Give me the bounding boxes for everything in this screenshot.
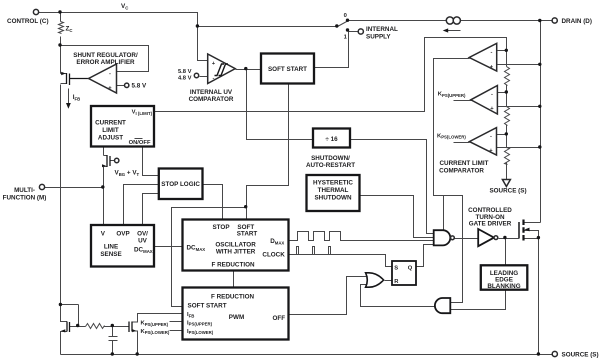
svg-text:OVP: OVP (116, 231, 129, 238)
svg-text:SOFT START: SOFT START (268, 66, 307, 73)
svg-text:CLOCK: CLOCK (262, 251, 285, 258)
svg-text:MULTI-: MULTI- (14, 187, 35, 194)
svg-text:STOP LOGIC: STOP LOGIC (161, 181, 200, 188)
svg-text:COMPARATOR: COMPARATOR (439, 167, 484, 174)
svg-text:ON/OFF: ON/OFF (129, 140, 151, 146)
svg-text:IPS(UPPER): IPS(UPPER) (187, 320, 213, 326)
svg-text:BLANKING: BLANKING (487, 283, 520, 290)
svg-text:S: S (394, 265, 398, 271)
svg-text:÷ 16: ÷ 16 (325, 136, 338, 143)
svg-text:WITH JITTER: WITH JITTER (216, 248, 256, 255)
svg-text:SENSE: SENSE (100, 251, 121, 258)
svg-text:4.8 V: 4.8 V (178, 75, 192, 81)
svg-text:ADJUST: ADJUST (98, 135, 123, 142)
svg-text:SOURCE (S): SOURCE (S) (489, 188, 526, 195)
svg-text:-: - (490, 133, 492, 139)
svg-text:-: - (109, 71, 111, 77)
svg-text:SOFT START: SOFT START (188, 303, 227, 310)
svg-text:STOP: STOP (212, 224, 229, 231)
svg-text:LINE: LINE (104, 244, 118, 251)
svg-text:F REDUCTION: F REDUCTION (211, 293, 254, 300)
svg-text:INTERNAL UV: INTERNAL UV (190, 89, 233, 96)
svg-text:VBG + VT: VBG + VT (115, 170, 140, 178)
svg-text:SUPPLY: SUPPLY (366, 33, 391, 40)
svg-text:FUNCTION (M): FUNCTION (M) (3, 194, 47, 201)
svg-text:KPS(UPPER): KPS(UPPER) (141, 321, 169, 327)
svg-text:F REDUCTION: F REDUCTION (211, 262, 254, 269)
svg-text:THERMAL: THERMAL (318, 187, 349, 194)
svg-text:KPS(UPPER): KPS(UPPER) (438, 92, 466, 98)
svg-text:-: - (213, 76, 215, 82)
svg-text:IPS(LOWER): IPS(LOWER) (187, 329, 214, 335)
svg-text:KPS(LOWER): KPS(LOWER) (437, 133, 466, 139)
svg-text:CURRENT LIMIT: CURRENT LIMIT (440, 160, 489, 167)
svg-text:5.8 V: 5.8 V (132, 83, 148, 90)
svg-text:KPS(LOWER): KPS(LOWER) (141, 329, 170, 335)
svg-text:VI (LIMIT): VI (LIMIT) (132, 110, 153, 116)
svg-text:INTERNAL: INTERNAL (366, 26, 398, 33)
svg-text:CONTROL (C): CONTROL (C) (7, 18, 49, 25)
svg-text:HYSTERETIC: HYSTERETIC (313, 180, 353, 187)
svg-text:CURRENT: CURRENT (95, 120, 126, 127)
svg-text:SOURCE (S): SOURCE (S) (562, 352, 599, 359)
svg-text:COMPARATOR: COMPARATOR (189, 96, 234, 103)
svg-text:-: - (491, 50, 493, 56)
svg-text:-: - (491, 91, 493, 97)
svg-text:0: 0 (344, 13, 347, 19)
svg-text:AUTO-RESTART: AUTO-RESTART (306, 162, 355, 169)
svg-text:UV: UV (138, 238, 148, 245)
svg-text:5.8 V: 5.8 V (178, 69, 192, 75)
svg-text:GATE DRIVER: GATE DRIVER (469, 221, 512, 228)
svg-text:IFB: IFB (187, 312, 194, 318)
svg-text:OFF: OFF (273, 315, 286, 322)
svg-text:SHUNT REGULATOR/: SHUNT REGULATOR/ (73, 52, 138, 59)
svg-text:SHUTDOWN/: SHUTDOWN/ (311, 155, 350, 162)
svg-text:Q: Q (408, 265, 413, 271)
svg-text:LIMIT: LIMIT (102, 127, 119, 134)
svg-text:DRAIN (D): DRAIN (D) (562, 18, 592, 25)
svg-text:START: START (237, 230, 258, 237)
svg-text:PWM: PWM (229, 314, 244, 321)
svg-text:SHUTDOWN: SHUTDOWN (314, 195, 352, 202)
svg-text:ERROR AMPLIFIER: ERROR AMPLIFIER (76, 59, 135, 66)
